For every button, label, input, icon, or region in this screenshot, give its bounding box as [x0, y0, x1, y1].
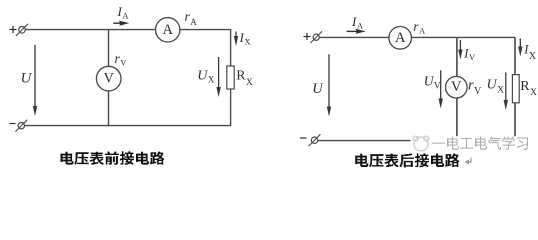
- svg-text:V: V: [451, 79, 462, 95]
- svg-text:V: V: [103, 71, 114, 87]
- svg-text:U: U: [21, 71, 33, 87]
- svg-text:A: A: [395, 30, 406, 46]
- svg-text:A: A: [162, 22, 173, 38]
- svg-text:U: U: [312, 81, 324, 97]
